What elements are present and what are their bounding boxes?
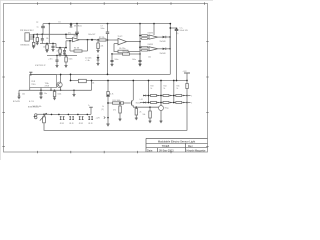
svg-text:Rev:: Rev:	[188, 145, 193, 148]
svg-text:C+: C+	[88, 105, 90, 107]
svg-text:1N4148: 1N4148	[160, 41, 166, 43]
resistor R12	[135, 106, 137, 108]
svg-text:47k: 47k	[57, 51, 60, 53]
resistor R10	[108, 102, 131, 104]
diode D6	[143, 102, 145, 104]
svg-text:TDA: TDA	[45, 82, 50, 85]
svg-text:L-41: L-41	[140, 99, 143, 101]
wire right rail down	[186, 81, 188, 131]
svg-text:LM358: LM358	[73, 36, 78, 38]
wire	[56, 44, 66, 48]
resistor R12	[142, 35, 148, 37]
svg-text:LM393: LM393	[148, 44, 153, 46]
node pin junction	[33, 35, 35, 39]
svg-text:Modulable Electro Sensor Light: Modulable Electro Sensor Light	[158, 139, 196, 143]
power rail mid1	[30, 73, 171, 75]
sheet border frame	[4, 4, 208, 153]
LED pair 2	[69, 116, 74, 120]
wire to U1B	[97, 39, 115, 41]
feedback wire	[114, 44, 118, 52]
svg-text:TIKE5: TIKE5	[162, 144, 170, 148]
op-amp U1B	[118, 38, 127, 44]
resistor R6b	[65, 56, 67, 58]
border zone tick top	[2, 2, 208, 153]
transistor Q4	[131, 101, 133, 106]
svg-text:ICM 7555 IP: ICM 7555 IP	[35, 65, 46, 67]
svg-text:MIC P1 10k: MIC P1 10k	[33, 106, 42, 108]
pin 2 wire	[29, 36, 33, 38]
svg-text:100uF 16V: 100uF 16V	[180, 30, 189, 32]
wire input+	[114, 43, 118, 45]
resistor R19	[186, 84, 189, 89]
wire ladder rail C	[173, 81, 175, 103]
svg-text:E C B: E C B	[29, 101, 34, 103]
svg-text:100n: 100n	[69, 58, 73, 60]
diode D1	[70, 23, 72, 25]
svg-text:09-Sep-2003: 09-Sep-2003	[159, 149, 174, 152]
svg-text:R14: R14	[164, 85, 167, 87]
capacitor C2	[52, 43, 54, 45]
svg-text:BISS0001: BISS0001	[21, 45, 31, 47]
wire	[40, 43, 56, 45]
comparator U2A	[149, 35, 158, 39]
diode D2	[97, 55, 99, 58]
capacitor C4	[42, 24, 44, 26]
diode D4	[158, 48, 163, 50]
resistor R16a	[176, 95, 182, 97]
svg-text:TRIG: TRIG	[31, 84, 36, 86]
wire output join	[169, 37, 171, 49]
svg-text:R13: R13	[151, 85, 154, 87]
svg-text:Ring: Ring	[165, 107, 169, 109]
resistor R7	[99, 39, 106, 41]
resistor R3	[46, 43, 48, 45]
resistor R9b inline	[107, 92, 110, 97]
svg-text:1k: 1k	[177, 88, 179, 90]
svg-text:TL072: TL072	[118, 36, 123, 38]
svg-text:22k: 22k	[101, 45, 104, 47]
svg-text:R15: R15	[177, 85, 180, 87]
pin 1 wire	[29, 34, 33, 36]
resistor R10b	[54, 89, 56, 91]
capacitor C10	[139, 54, 141, 60]
resistor R9	[78, 79, 86, 82]
capacitor C5	[76, 24, 78, 32]
svg-text:4.7k: 4.7k	[110, 94, 113, 96]
wire main signal	[34, 33, 77, 35]
power +12V bar right	[184, 72, 190, 74]
wire	[48, 24, 50, 44]
pin stub	[40, 88, 42, 91]
wire vertical rail	[107, 24, 109, 75]
resistor R2	[33, 39, 35, 42]
svg-text:2: 2	[191, 103, 192, 105]
svg-text:10k: 10k	[148, 57, 151, 59]
feedback wire	[87, 40, 89, 51]
wire LED chain	[49, 113, 91, 115]
resistor R14b	[151, 102, 157, 104]
ground	[36, 42, 39, 45]
svg-text:1k: 1k	[151, 88, 153, 90]
capacitor row caps left	[47, 55, 77, 57]
svg-text:R-10 100k: R-10 100k	[113, 100, 121, 102]
LED pair 4	[88, 116, 93, 120]
wire rail2 drop	[91, 81, 93, 91]
comparator rail	[139, 23, 141, 25]
capacitor C1	[170, 27, 176, 29]
node A	[48, 23, 50, 25]
svg-text:10k: 10k	[143, 114, 146, 116]
ground	[46, 49, 49, 52]
resistor R16b	[176, 102, 182, 104]
svg-text:2k: 2k	[140, 112, 142, 114]
capacitor C9	[111, 54, 113, 60]
resistor R11	[119, 102, 121, 104]
resistor R14a	[151, 95, 157, 97]
svg-text:100k: 100k	[58, 93, 62, 95]
LED pair 3	[79, 116, 84, 120]
wire row	[112, 53, 140, 55]
wire emitter	[134, 106, 159, 108]
svg-text:+ 1.8n: + 1.8n	[85, 60, 90, 62]
resistor R18	[149, 106, 151, 108]
svg-text:R8 1k: R8 1k	[123, 51, 128, 53]
svg-text:MC78L05: MC78L05	[74, 26, 82, 28]
svg-text:R4 1M: R4 1M	[74, 47, 80, 49]
wire input-	[114, 39, 118, 41]
capacitor C11	[40, 89, 42, 91]
svg-text:10n: 10n	[44, 93, 47, 95]
svg-text:100u 10P: 100u 10P	[88, 34, 96, 36]
node B	[76, 23, 78, 25]
svg-text:1k: 1k	[164, 88, 166, 90]
PIR module U3	[25, 33, 29, 41]
transistor Q7	[159, 106, 164, 111]
wire output	[79, 39, 96, 41]
resistor R8	[123, 53, 130, 55]
resistor R13	[142, 46, 148, 48]
title block	[146, 138, 208, 152]
power rail +5V top	[43, 23, 170, 25]
svg-text:100n: 100n	[115, 59, 119, 61]
ground	[32, 46, 35, 49]
resistor R5	[59, 47, 61, 49]
svg-text:1: 1	[191, 96, 192, 98]
wire under 555	[19, 89, 92, 91]
svg-text:Date:: Date:	[147, 149, 153, 152]
LED pair 1	[60, 116, 65, 120]
svg-text:10k: 10k	[46, 38, 49, 40]
svg-text:100n: 100n	[132, 59, 136, 61]
svg-text:Hiroshi Maquette: Hiroshi Maquette	[187, 149, 207, 152]
resistor R15a	[163, 95, 169, 97]
svg-text:PIR SB-02 BL2: PIR SB-02 BL2	[20, 30, 34, 32]
svg-text:10k: 10k	[92, 82, 95, 84]
wire bottom return	[44, 123, 187, 131]
wire input2	[142, 38, 148, 40]
pin stub	[29, 88, 31, 91]
wire input+	[66, 38, 73, 40]
wire input2b	[142, 50, 148, 52]
svg-text:D1: D1	[59, 22, 61, 24]
wire ladder rail A	[148, 81, 150, 103]
comparator U2B	[149, 47, 158, 51]
svg-text:+ 47u: + 47u	[48, 58, 52, 60]
transistor Q1	[18, 90, 20, 93]
capacitor C3	[41, 33, 43, 35]
svg-text:47u: 47u	[68, 33, 71, 35]
mic M1	[35, 114, 37, 116]
rail 12V vertical	[107, 81, 109, 125]
diode D5	[143, 95, 145, 97]
wire right rail corner	[169, 24, 171, 75]
potentiometer P1	[43, 117, 46, 123]
power rail mid2	[71, 80, 188, 82]
svg-text:1k: 1k	[102, 106, 104, 108]
wire input-	[66, 40, 73, 42]
svg-text:47k: 47k	[113, 109, 116, 111]
IC U4 555	[30, 75, 57, 88]
node C7	[107, 23, 109, 25]
ladder row 1	[143, 95, 187, 97]
svg-text:C8 470n: C8 470n	[119, 48, 125, 50]
capacitor C2b	[56, 56, 58, 60]
svg-text:BC547B: BC547B	[13, 101, 20, 103]
power drop	[153, 23, 155, 25]
resistor R6	[97, 39, 99, 41]
wire output	[127, 41, 140, 43]
wire from Q4 stage	[140, 102, 143, 104]
ladder row 2	[143, 102, 187, 104]
wire ladder rail B	[160, 81, 162, 106]
ground	[73, 89, 75, 91]
svg-text:1N4148: 1N4148	[160, 53, 166, 55]
capacitor C12	[89, 106, 93, 108]
capacitor C6	[64, 48, 66, 51]
diode D3	[158, 36, 163, 38]
svg-text:100n: 100n	[101, 28, 105, 30]
svg-text:1u: 1u	[37, 27, 39, 29]
resistor R4	[74, 50, 82, 52]
resistor R1	[36, 33, 38, 35]
svg-text:R7 22k: R7 22k	[99, 37, 105, 39]
pin stub	[50, 88, 52, 91]
op-amp U1A	[73, 38, 80, 42]
svg-text:10n: 10n	[43, 47, 46, 49]
power +5V bar	[29, 71, 32, 73]
svg-text:10k: 10k	[22, 93, 25, 95]
svg-text:LM393: LM393	[148, 33, 153, 35]
page edge shading	[0, 0, 213, 160]
resistor R15b	[163, 102, 169, 104]
transistor Q2	[57, 82, 62, 87]
capacitor C8	[118, 50, 128, 53]
pin 3 wire	[29, 38, 33, 40]
